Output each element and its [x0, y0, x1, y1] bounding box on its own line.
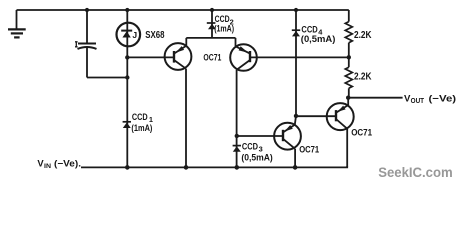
- svg-text:CCD: CCD: [132, 112, 148, 122]
- svg-text:CCD: CCD: [242, 141, 258, 151]
- node cap top: [85, 8, 89, 12]
- node rail Q4 collector: [293, 165, 298, 170]
- wire base line T1: [127, 56, 174, 58]
- svg-text:(−Ve).: (−Ve).: [54, 159, 81, 169]
- svg-text:(1mA): (1mA): [131, 123, 152, 133]
- wire top rail 0V: [17, 9, 349, 11]
- wire CCD4 to Q4 emitter: [295, 116, 296, 125]
- resistor R1 2.2K: [345, 10, 352, 57]
- node Q4 base / CCD3: [235, 134, 239, 138]
- wire Q2 collector drop: [236, 70, 238, 167]
- svg-text:IN: IN: [44, 163, 51, 170]
- svg-text:2.2K: 2.2K: [354, 30, 372, 41]
- svg-text:OUT: OUT: [411, 98, 425, 105]
- transistor Q5 OC71 output: [327, 103, 354, 130]
- transistor Q2 OC71 (mirrored): [230, 44, 257, 71]
- svg-text:OC71: OC71: [299, 144, 319, 155]
- wire SX68 branch vertical: [126, 10, 128, 167]
- wire bottom rail: [81, 166, 347, 167]
- node SX68 top: [125, 8, 129, 12]
- diode CCD3: [233, 146, 241, 152]
- wire Q1 collector drop: [185, 69, 187, 167]
- svg-text:(−Ve): (−Ve): [429, 92, 457, 103]
- svg-text:CCD: CCD: [215, 14, 230, 24]
- svg-text:(0,5mA): (0,5mA): [301, 34, 336, 44]
- transistor Q4 OC71: [274, 123, 301, 150]
- wire Q4 collector drop: [294, 149, 296, 167]
- node Q1 base: [125, 55, 129, 59]
- node CCD2 top: [210, 8, 214, 12]
- wire Q5 collector drop: [346, 129, 348, 167]
- transistor Q1 OC71: [165, 43, 192, 70]
- svg-text:SeekIC.com: SeekIC.com: [378, 165, 453, 180]
- node cap return: [125, 75, 129, 79]
- diode SX68: [117, 23, 141, 47]
- wire emitters link: [186, 37, 235, 39]
- resistor R2 2.2K: [345, 57, 352, 97]
- svg-text:(1mA): (1mA): [214, 24, 234, 34]
- svg-text:2.2K: 2.2K: [354, 72, 372, 83]
- capacitor C1: [75, 10, 97, 78]
- svg-text:SX68: SX68: [145, 29, 164, 41]
- node rail Q1 collector: [184, 165, 189, 170]
- node rail CCD1: [125, 165, 130, 170]
- wire Q2 emitter riser: [235, 38, 237, 46]
- svg-text:(0,5mA): (0,5mA): [241, 153, 272, 163]
- svg-text:J: J: [132, 30, 137, 40]
- wire Q2 base to resistor junction: [250, 56, 349, 58]
- svg-text:OC71: OC71: [203, 53, 221, 63]
- wire Q1 emitter riser: [185, 38, 187, 46]
- node Q4 emitter: [294, 114, 298, 118]
- wire Q5 emitter riser: [347, 98, 349, 106]
- node resistor junction: [347, 55, 351, 59]
- diode CCD4: [292, 10, 300, 116]
- wire VOUT line: [348, 97, 402, 99]
- node rail CCD3: [235, 165, 240, 170]
- value label I of capacitor: [75, 42, 78, 47]
- node VOUT: [346, 96, 350, 100]
- wire T4 base line: [237, 135, 283, 137]
- diode CCD1: [123, 122, 131, 128]
- diode CCD2: [207, 10, 216, 38]
- ground: [8, 10, 26, 37]
- wire capacitor bottom to node: [87, 77, 127, 79]
- wire Q5 base line: [296, 115, 336, 117]
- node CCD4 top: [294, 8, 298, 12]
- svg-text:CCD: CCD: [301, 24, 318, 34]
- svg-text:OC71: OC71: [351, 127, 372, 137]
